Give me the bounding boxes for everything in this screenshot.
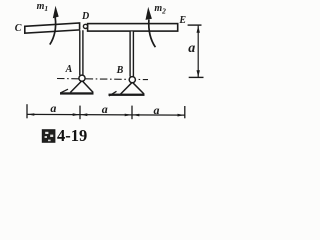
right dimension bottom tick xyxy=(189,76,204,78)
ground hatch at A xyxy=(60,89,68,93)
dim arrow left end (points left) xyxy=(28,113,35,116)
ground hatch at B xyxy=(109,91,117,96)
pin circle B xyxy=(129,77,135,83)
dim label a right xyxy=(188,41,195,57)
pin circle A xyxy=(79,75,85,81)
dim label a2 xyxy=(102,102,108,117)
label D xyxy=(82,11,89,22)
moment arrow m1 arc xyxy=(50,18,56,45)
dim arrows at tick 2 xyxy=(73,113,80,116)
label m2 xyxy=(154,3,166,15)
moment arrow m2 arc xyxy=(149,20,156,48)
bottom dimension tick 1 xyxy=(26,104,28,118)
right dimension top tick at E level xyxy=(188,24,202,26)
label B xyxy=(117,65,124,76)
label A xyxy=(66,64,73,75)
bottom dimension line xyxy=(27,113,185,116)
bottom dimension tick 2 xyxy=(79,106,81,120)
post from D down to support A xyxy=(80,30,83,76)
ground line under B xyxy=(109,94,145,96)
support B triangle xyxy=(121,82,144,94)
centerline A-B (dash-dot) xyxy=(57,79,148,80)
moment arrow m1 head xyxy=(53,6,59,18)
caption text 4-19 xyxy=(57,126,87,146)
right dim arrow up xyxy=(197,26,200,33)
dim arrow right end (points right) xyxy=(178,114,185,117)
dim label a3 xyxy=(154,103,160,118)
dim label a1 xyxy=(50,101,56,116)
right dim arrow down xyxy=(197,70,200,77)
right dimension line xyxy=(197,26,199,78)
moment arrow m2 head xyxy=(146,7,152,20)
pin circle D xyxy=(83,24,87,28)
bottom dimension tick 4 xyxy=(184,106,186,118)
support A triangle xyxy=(70,81,93,93)
bar DE (member 2 horizontal bar) xyxy=(88,24,178,32)
label m1 xyxy=(37,1,49,13)
dim arrows at tick 3 xyxy=(125,114,132,117)
label C xyxy=(15,23,22,34)
ground line under A xyxy=(60,92,94,94)
label E xyxy=(179,15,186,26)
post from bar DE down to support B xyxy=(130,32,133,77)
bottom dimension tick 3 xyxy=(131,106,133,120)
caption 图 glyph xyxy=(42,130,54,142)
bar CD (member 1 horizontal bar) xyxy=(25,23,80,33)
